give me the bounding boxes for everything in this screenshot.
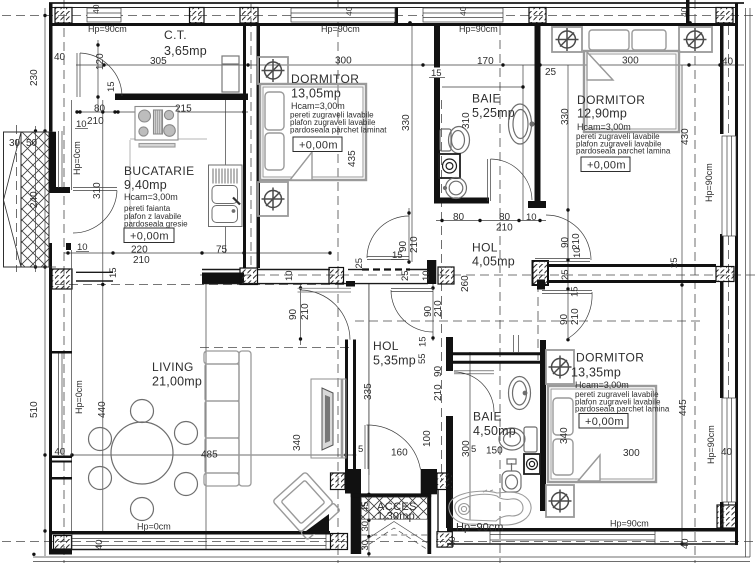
stove: [135, 107, 178, 148]
window W2 dormitor1 top: [291, 8, 395, 22]
sink baie525 round: [444, 178, 467, 199]
left wall stub below kitchen door: [66, 243, 71, 250]
top wall inner face thick: [50, 23, 738, 26]
axis vertical dormitor right: [694, 0, 696, 563]
window W4 dormitor1290 right: [722, 136, 736, 236]
left wall segment at terrace: [49, 132, 56, 188]
pier hatched bottom left: [54, 536, 72, 550]
svg-text:12,90mp: 12,90mp: [577, 107, 627, 121]
bed dormitor1: [260, 84, 366, 180]
bathtub baie450: [449, 490, 531, 525]
hol band black segment kitchen side: [202, 273, 244, 284]
svg-text:pardoseala parchet laminat: pardoseala parchet laminat: [290, 126, 387, 135]
svg-text:485: 485: [201, 450, 218, 461]
svg-text:+0,00m: +0,00m: [299, 140, 338, 152]
pier hatched top A: [55, 8, 72, 24]
acces right wall: [427, 493, 431, 554]
door D9 baie450: [454, 371, 494, 412]
axis horizontal second hol wall: [355, 320, 700, 322]
dim vertical 445: [681, 65, 683, 546]
acces top wall: [351, 493, 432, 497]
pier hatched left mid: [52, 269, 72, 289]
svg-text:50: 50: [26, 138, 38, 149]
svg-text:210: 210: [433, 300, 444, 317]
svg-text:Hp=90cm: Hp=90cm: [704, 163, 714, 202]
svg-text:30: 30: [360, 540, 371, 551]
dim line kitchen bottom: [64, 252, 330, 254]
axis horizontal kitchen-living: [55, 284, 355, 286]
pier hatched top C: [240, 8, 258, 24]
svg-text:40: 40: [722, 57, 734, 68]
wall post hol door: [427, 260, 436, 284]
svg-text:215: 215: [175, 104, 192, 115]
svg-text:220: 220: [131, 245, 148, 256]
svg-text:5,25mp: 5,25mp: [472, 106, 515, 120]
hol top band: upper face segments: [76, 271, 113, 273]
svg-text:10: 10: [526, 212, 537, 223]
bottom outer dim line 2: [33, 561, 750, 563]
svg-text:Hcam=3,00m: Hcam=3,00m: [577, 122, 631, 132]
svg-text:10: 10: [572, 247, 583, 258]
window W3 baie top: [423, 8, 503, 22]
svg-text:Hp=90cm: Hp=90cm: [456, 522, 503, 534]
svg-text:5: 5: [358, 444, 363, 455]
lamp box dormitor1290 right: [679, 27, 712, 52]
lamp box dormitor1 top: [258, 57, 288, 84]
acces pier left: [331, 473, 346, 490]
svg-text:240: 240: [29, 191, 40, 208]
svg-text:BUCATARIE: BUCATARIE: [124, 164, 195, 178]
dim vertical tv 335: [368, 283, 370, 475]
svg-text:BAIE: BAIE: [473, 410, 502, 424]
svg-text:80: 80: [94, 104, 106, 115]
sink baie450: [502, 459, 521, 492]
bottom wall right: outer face: [447, 543, 738, 545]
svg-text:80: 80: [453, 212, 465, 223]
svg-text:30: 30: [9, 138, 21, 149]
lamp box dormitor1335 top: [546, 350, 574, 384]
svg-text:210: 210: [433, 384, 444, 401]
svg-text:Hp=90cm: Hp=90cm: [610, 519, 649, 529]
washing machine baie450: [524, 454, 540, 474]
pier hatched hol B: [329, 268, 344, 284]
ct boiler: [222, 56, 239, 92]
svg-text:25: 25: [545, 67, 557, 78]
window W6 left living: [59, 353, 63, 455]
svg-text:40: 40: [91, 4, 101, 14]
svg-text:25: 25: [560, 269, 571, 280]
hol band left end post with hatch: [533, 261, 549, 285]
baie525 right wall foot: [528, 201, 546, 208]
svg-text:5,35mp: 5,35mp: [373, 354, 416, 368]
axis vertical mid (acces): [337, 0, 339, 563]
dim vertical ct door: [97, 40, 99, 112]
svg-text:230: 230: [29, 69, 40, 86]
svg-text:40: 40: [344, 6, 354, 16]
svg-text:210: 210: [133, 255, 150, 266]
svg-text:90: 90: [398, 240, 409, 252]
acces door stub left: [345, 469, 361, 494]
svg-text:4,05mp: 4,05mp: [472, 255, 515, 269]
svg-text:13,35mp: 13,35mp: [571, 366, 621, 380]
dim vertical d35 door: [567, 65, 569, 341]
wall post top w2-w3: [394, 8, 398, 24]
svg-text:1,30mp: 1,30mp: [377, 511, 415, 523]
dim vertical kitchen chain: [102, 100, 104, 531]
right wall outer face: [735, 3, 738, 545]
svg-text:210: 210: [300, 303, 311, 320]
svg-text:300: 300: [622, 56, 639, 67]
lamp dormitor1335 top: [549, 356, 572, 379]
svg-text:Hp=0cm: Hp=0cm: [74, 380, 84, 414]
svg-text:Hcam=3,00m: Hcam=3,00m: [291, 101, 345, 111]
svg-text:440: 440: [97, 401, 108, 418]
svg-text:40: 40: [94, 539, 105, 550]
washbasin baie450 top: [509, 377, 531, 410]
svg-text:120: 120: [95, 53, 106, 70]
svg-text:260: 260: [460, 275, 471, 292]
pier hatched hol A: [240, 268, 258, 285]
axis horizontal top wall: [2, 15, 755, 17]
bottom outer dim line 1: [33, 556, 750, 558]
svg-text:25: 25: [669, 257, 680, 268]
svg-text:HOL: HOL: [472, 241, 498, 255]
svg-text:80: 80: [499, 212, 511, 223]
window W5 dormitor1335 right: [722, 398, 736, 502]
svg-text:HOL: HOL: [373, 339, 399, 353]
pier hatched bottom acces-left: [331, 534, 348, 550]
pier hatched right bottom: [717, 505, 736, 528]
dim vertical acces: [368, 283, 370, 557]
bottom left corner black: [49, 550, 72, 555]
svg-text:LIVING: LIVING: [152, 360, 194, 374]
lamp dormitor1 top: [262, 59, 285, 82]
living-hol wall: [345, 340, 348, 475]
svg-text:430: 430: [680, 128, 691, 145]
lamp box dormitor1290 left: [552, 27, 582, 52]
svg-text:30: 30: [360, 521, 371, 532]
lamp dormitor1 bottom: [262, 188, 285, 211]
lamp box dormitor1 bottom: [258, 182, 288, 216]
dim vertical baie525 330: [522, 65, 524, 220]
svg-text:9,40mp: 9,40mp: [124, 178, 167, 192]
svg-text:40: 40: [721, 447, 733, 458]
top wall upper face: [50, 7, 737, 9]
right hol band faces: [547, 264, 716, 267]
inner face upper left wall: [71, 100, 73, 190]
svg-text:435: 435: [347, 150, 358, 167]
svg-text:21,00mp: 21,00mp: [152, 375, 202, 389]
axis vertical right wall: [728, 26, 730, 505]
pier hatched right mid: [716, 267, 734, 282]
armchair black triangle: [302, 514, 329, 534]
bed dormitor1290: [584, 51, 679, 132]
dim vertical living door: [300, 283, 302, 345]
left wall stub at kitchen door top: [49, 187, 70, 193]
svg-text:3,65mp: 3,65mp: [164, 44, 207, 58]
svg-text:330: 330: [560, 108, 571, 125]
top outer boundary line: [49, 2, 744, 4]
dim vertical hol door: [432, 262, 434, 341]
lamp box dormitor1335 bottom: [546, 485, 574, 517]
svg-text:Hcam=3,00m: Hcam=3,00m: [575, 380, 629, 390]
svg-text:Hp=90cm: Hp=90cm: [321, 24, 360, 34]
dim line hol405: [436, 220, 546, 222]
svg-text:15: 15: [418, 336, 429, 347]
bottom wall living: inner face: [50, 531, 330, 535]
svg-text:15: 15: [106, 81, 117, 92]
svg-text:10: 10: [421, 270, 432, 281]
svg-text:330: 330: [401, 114, 412, 131]
acces pier right: [437, 473, 452, 490]
ct-kitchen wall: [115, 94, 248, 101]
svg-text:150: 150: [486, 446, 503, 457]
svg-text:340: 340: [292, 434, 303, 451]
svg-text:305: 305: [150, 56, 167, 67]
left wall outer thick upper: [49, 3, 53, 193]
svg-text:DORMITOR: DORMITOR: [576, 351, 644, 365]
dim vertical dormitor1 door: [408, 208, 410, 264]
svg-text:210: 210: [409, 236, 420, 253]
baie525 bottom wall: [434, 198, 489, 204]
svg-text:DORMITOR: DORMITOR: [577, 93, 645, 107]
top dim line under windows: [76, 64, 744, 66]
axis vertical left wall: [63, 0, 65, 563]
lamp dormitor1335 bottom: [549, 490, 572, 513]
left wall band lower inner face: [71, 250, 73, 531]
door D1 ct: [77, 53, 122, 97]
construction line living: [205, 283, 207, 549]
axis vertical baie: [499, 26, 501, 563]
svg-text:25: 25: [400, 270, 411, 281]
pier hatched acces bottom right: [437, 532, 452, 547]
baie450 top wall post: [513, 335, 515, 352]
svg-text:40: 40: [447, 536, 458, 547]
svg-text:+0,00m: +0,00m: [585, 416, 624, 428]
svg-text:C.T.: C.T.: [164, 28, 187, 42]
axis vertical hol door: [537, 283, 539, 360]
svg-text:15: 15: [108, 267, 119, 278]
svg-text:75: 75: [216, 245, 228, 256]
svg-text:90: 90: [288, 308, 299, 320]
toilet baie525: [440, 127, 470, 154]
svg-text:45: 45: [360, 501, 371, 512]
wall post top 40 right: [686, 0, 690, 24]
svg-text:40: 40: [54, 52, 66, 63]
svg-text:210: 210: [496, 223, 513, 234]
svg-text:300: 300: [623, 448, 640, 459]
svg-text:170: 170: [477, 56, 494, 67]
svg-text:55: 55: [417, 353, 428, 364]
acces cross pattern: [361, 497, 427, 549]
sofa living: [204, 351, 251, 486]
svg-text:Hp=90cm: Hp=90cm: [459, 24, 498, 34]
svg-text:510: 510: [29, 401, 40, 418]
svg-text:10: 10: [284, 270, 295, 281]
hol top band: lower face segments: [76, 280, 113, 282]
svg-text:40: 40: [680, 538, 691, 549]
hol5-baie450 wall: [446, 337, 453, 371]
door D2 kitchen left: [73, 188, 117, 234]
stub below band at dorm door: [537, 280, 545, 290]
dim vertical dormitor1 330: [411, 26, 413, 262]
axis horizontal living upper: [200, 347, 352, 349]
window W1 ct top: [87, 8, 121, 22]
svg-text:+0,00m: +0,00m: [587, 160, 626, 172]
svg-text:40: 40: [458, 6, 468, 16]
door D5 hol405-hol535: [391, 289, 433, 333]
svg-text:310: 310: [92, 182, 103, 199]
svg-text:Hcam=3,00m: Hcam=3,00m: [124, 192, 178, 202]
axis horizontal hol wall: [200, 274, 755, 276]
acces door stub right: [421, 469, 437, 494]
baie450-dormitor wall: [540, 340, 546, 511]
svg-text:25: 25: [354, 258, 365, 269]
svg-text:160: 160: [391, 448, 408, 459]
tv cabinet: [311, 379, 346, 458]
door D6 dormitor1290: [535, 215, 591, 262]
svg-text:90: 90: [433, 365, 444, 377]
dining table: [89, 400, 198, 521]
svg-text:90: 90: [560, 236, 571, 248]
kitchen-dormitor wall: [243, 26, 246, 268]
kitchen sink unit: [209, 165, 243, 227]
toilet baie450: [499, 427, 537, 452]
duct wall faces right of acces: [437, 490, 439, 532]
baie525 right wall: [535, 26, 541, 201]
svg-text:Hp=90cm: Hp=90cm: [706, 425, 716, 464]
svg-text:340: 340: [559, 427, 570, 444]
baie525 left wall: [434, 26, 440, 204]
svg-text:Hp=0cm: Hp=0cm: [137, 522, 171, 532]
wall basin baie525: [509, 104, 535, 144]
bed dormitor1335: [548, 386, 656, 482]
terrace block left: [4, 132, 57, 267]
svg-text:90: 90: [559, 313, 570, 325]
door D4 living: [298, 288, 352, 339]
svg-text:300: 300: [461, 440, 472, 457]
right outer dim line 1: [745, 8, 747, 557]
svg-text:445: 445: [678, 399, 689, 416]
pier hatched top B: [190, 8, 205, 24]
wall stub living door: [346, 281, 355, 287]
washing machine baie525: [439, 154, 460, 178]
svg-text:DORMITOR: DORMITOR: [291, 72, 359, 86]
left outer dim line: [44, 8, 46, 556]
svg-text:100: 100: [422, 430, 433, 447]
bottom wall right: inner face: [447, 528, 738, 532]
window W6 living bottom: [72, 535, 326, 550]
window left kitchen band: [59, 131, 63, 188]
door D7 dormitor1335: [542, 291, 592, 340]
axis vertical kitchen wall: [250, 4, 252, 270]
svg-text:pardoseala gresie: pardoseala gresie: [124, 220, 188, 229]
svg-text:pardoseala parchet lamina: pardoseala parchet lamina: [576, 147, 671, 156]
dim vertical d1290 door: [567, 208, 569, 262]
axis vertical baie wall: [441, 100, 443, 480]
axis vertical terrace block: [16, 125, 18, 272]
svg-text:4,50mp: 4,50mp: [473, 424, 516, 438]
svg-text:210: 210: [87, 116, 104, 127]
window W7 bottom right: [490, 532, 655, 545]
lamp dormitor1290 right: [684, 28, 707, 51]
acces left wall: [351, 493, 362, 554]
svg-text:40: 40: [679, 7, 689, 17]
dim line living 485: [72, 454, 355, 456]
svg-text:210: 210: [570, 308, 581, 325]
svg-text:40: 40: [55, 447, 66, 458]
kitchen counter outline: [130, 139, 207, 240]
svg-text:15: 15: [570, 286, 581, 297]
pier hatched hol C: [438, 267, 454, 284]
svg-text:Hp=0cm: Hp=0cm: [72, 141, 82, 175]
dim line ct door: [76, 111, 248, 113]
lamp dormitor1290 left: [556, 28, 579, 51]
baie450 top wall left part: [453, 352, 540, 355]
svg-text:BAIE: BAIE: [472, 92, 501, 106]
svg-text:13,05mp: 13,05mp: [291, 87, 341, 101]
svg-text:+0,00m: +0,00m: [130, 231, 169, 243]
left dim line 2: [35, 126, 37, 272]
pier hatched top E: [716, 8, 733, 24]
door D12 acces entrance: [365, 425, 421, 469]
door D8 baie525: [488, 159, 533, 201]
svg-text:pardoseala parchet lamina: pardoseala parchet lamina: [575, 405, 670, 414]
svg-text:300: 300: [335, 56, 352, 67]
armchair rotated: [273, 472, 340, 540]
pier hatched top D: [529, 8, 546, 24]
svg-text:Hp=90cm: Hp=90cm: [88, 24, 127, 34]
svg-text:335: 335: [363, 383, 374, 400]
axis horizontal bottom wall: [2, 541, 755, 543]
right wall inner segments: [720, 23, 724, 134]
svg-text:310: 310: [461, 112, 472, 129]
bottom wall living: outer face: [50, 549, 330, 551]
right outer dim line 2: [749, 8, 751, 557]
door D3 dormitor1: [367, 216, 409, 260]
